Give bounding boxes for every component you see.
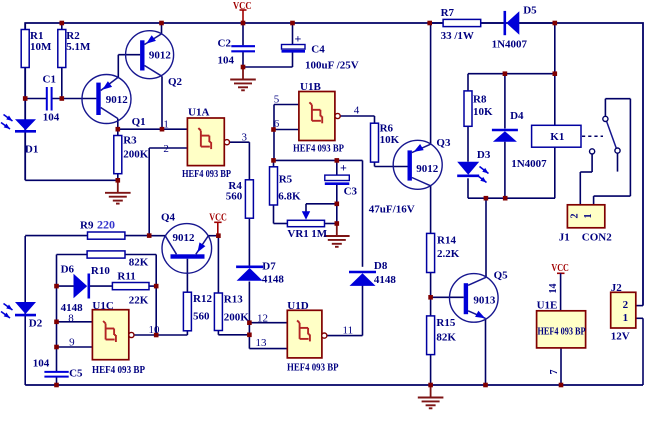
svg-text:14: 14	[548, 284, 559, 294]
svg-text:R1: R1	[30, 30, 43, 42]
svg-text:HEF4 093 BP: HEF4 093 BP	[287, 362, 339, 374]
svg-text:1N4007: 1N4007	[511, 158, 547, 170]
svg-text:+: +	[295, 31, 302, 45]
svg-text:R6: R6	[380, 123, 394, 135]
svg-text:Q1: Q1	[132, 116, 146, 128]
svg-text:6.8K: 6.8K	[278, 191, 301, 203]
svg-text:VCC: VCC	[209, 211, 227, 223]
svg-text:HEF4 093 BP: HEF4 093 BP	[182, 168, 231, 180]
svg-text:1: 1	[623, 312, 629, 324]
svg-text:D1: D1	[25, 144, 38, 156]
svg-text:12: 12	[257, 312, 268, 324]
svg-text:5.1M: 5.1M	[66, 41, 91, 53]
svg-text:K1: K1	[550, 131, 564, 143]
svg-text:2.2K: 2.2K	[437, 248, 460, 260]
svg-text:200K: 200K	[224, 311, 250, 323]
svg-text:9: 9	[69, 337, 75, 349]
svg-text:U1A: U1A	[188, 107, 209, 119]
svg-text:R10: R10	[91, 265, 110, 277]
svg-text:D5: D5	[523, 4, 537, 16]
svg-text:VCC: VCC	[551, 262, 569, 274]
svg-text:10M: 10M	[30, 41, 52, 53]
svg-text:HEF4 093 BP: HEF4 093 BP	[92, 364, 145, 376]
svg-text:9012: 9012	[149, 50, 172, 62]
svg-text:100uF /25V: 100uF /25V	[305, 60, 359, 72]
svg-text:13: 13	[256, 337, 268, 349]
svg-text:R2: R2	[66, 30, 80, 42]
svg-text:R14: R14	[437, 235, 456, 247]
svg-text:82K: 82K	[436, 332, 456, 344]
svg-text:33 /1W: 33 /1W	[441, 30, 474, 42]
svg-text:4148: 4148	[374, 274, 397, 286]
svg-text:200K: 200K	[123, 148, 149, 160]
svg-text:VR1: VR1	[287, 228, 308, 240]
svg-text:8: 8	[68, 312, 74, 324]
svg-text:R3: R3	[123, 135, 137, 147]
svg-text:D2: D2	[29, 317, 43, 329]
svg-text:9012: 9012	[173, 232, 196, 244]
svg-text:9012: 9012	[416, 163, 439, 175]
svg-text:Q2: Q2	[168, 76, 183, 88]
svg-text:6: 6	[274, 118, 280, 130]
svg-text:4: 4	[354, 105, 360, 117]
svg-text:+: +	[340, 161, 347, 175]
svg-text:U1C: U1C	[92, 300, 113, 312]
svg-text:1N4007: 1N4007	[492, 38, 528, 50]
svg-text:Q4: Q4	[161, 212, 176, 224]
svg-text:5: 5	[274, 94, 280, 106]
svg-text:D4: D4	[510, 110, 524, 122]
svg-text:J2: J2	[611, 282, 623, 294]
svg-text:R13: R13	[224, 294, 243, 306]
svg-text:Q3: Q3	[436, 137, 451, 149]
svg-text:22K: 22K	[129, 294, 149, 306]
svg-text:10: 10	[149, 324, 161, 336]
svg-text:VCC: VCC	[233, 0, 252, 12]
svg-text:1M: 1M	[311, 228, 328, 240]
svg-text:HEF4 093 BP: HEF4 093 BP	[293, 143, 344, 155]
svg-text:HEF4 093 BP: HEF4 093 BP	[538, 325, 586, 337]
svg-text:R15: R15	[436, 317, 455, 329]
svg-text:9013: 9013	[473, 295, 496, 307]
svg-text:C5: C5	[69, 367, 83, 379]
svg-text:1: 1	[583, 214, 594, 219]
svg-text:U1D: U1D	[287, 300, 308, 312]
svg-text:560: 560	[226, 191, 243, 203]
svg-text:2: 2	[623, 299, 629, 311]
svg-text:CON2: CON2	[582, 232, 612, 244]
svg-text:U1B: U1B	[300, 81, 321, 93]
svg-text:C3: C3	[344, 186, 358, 198]
svg-text:U1E: U1E	[537, 300, 558, 312]
svg-text:D6: D6	[61, 264, 75, 276]
svg-text:D3: D3	[477, 149, 491, 161]
svg-text:C2: C2	[218, 37, 232, 49]
svg-text:R12: R12	[193, 293, 212, 305]
svg-text:104: 104	[43, 111, 60, 123]
svg-text:C1: C1	[43, 74, 56, 86]
svg-text:R5: R5	[279, 173, 293, 185]
svg-text:2: 2	[163, 143, 169, 155]
svg-text:220: 220	[97, 218, 115, 232]
svg-text:R7: R7	[441, 7, 455, 19]
svg-text:3: 3	[242, 132, 248, 144]
svg-text:D8: D8	[374, 260, 388, 272]
svg-text:104: 104	[33, 357, 50, 369]
svg-text:7: 7	[549, 370, 560, 375]
svg-text:82K: 82K	[129, 256, 149, 268]
svg-text:R9: R9	[80, 220, 94, 232]
svg-text:R11: R11	[117, 270, 135, 282]
svg-text:47uF/16V: 47uF/16V	[369, 204, 415, 216]
svg-text:D7: D7	[262, 261, 276, 273]
svg-text:11: 11	[343, 324, 354, 336]
svg-text:104: 104	[218, 54, 235, 66]
svg-text:J1: J1	[559, 232, 570, 244]
svg-text:560: 560	[193, 311, 210, 323]
svg-text:2: 2	[570, 214, 581, 219]
svg-text:4148: 4148	[262, 273, 285, 285]
svg-text:10K: 10K	[380, 134, 400, 146]
svg-text:12V: 12V	[611, 331, 630, 343]
svg-text:R8: R8	[473, 93, 487, 105]
svg-text:C4: C4	[311, 44, 325, 56]
svg-text:10K: 10K	[473, 106, 493, 118]
svg-text:Q5: Q5	[494, 270, 509, 282]
svg-text:1: 1	[163, 118, 169, 130]
svg-text:9012: 9012	[106, 94, 129, 106]
